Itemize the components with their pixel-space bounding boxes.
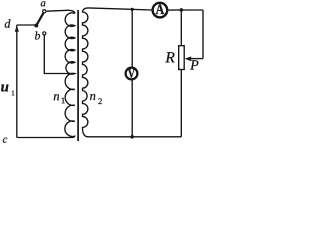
label n2	[90, 94, 95, 100]
wire d top horizontal	[17, 24, 37, 26]
label u1 subscript	[12, 91, 14, 96]
wire resistor top	[180, 10, 182, 46]
transformer core	[77, 10, 79, 141]
contact b circle	[43, 32, 46, 35]
wire secondary top to ammeter	[88, 8, 152, 10]
wiper arrow shaft P	[190, 58, 203, 60]
wiper arrowhead	[185, 56, 192, 61]
wire voltmeter branch lower	[131, 80, 133, 137]
label b	[35, 31, 40, 39]
label d	[5, 19, 11, 27]
wire bottom primary	[17, 137, 70, 139]
junction dot voltmeter top	[131, 8, 134, 11]
label n2 subscript	[98, 98, 101, 104]
voltmeter V circle	[126, 68, 138, 80]
junction dot voltmeter bottom	[130, 135, 134, 139]
meter letter V	[128, 69, 135, 77]
wire bottom secondary	[87, 136, 181, 138]
label n1	[54, 94, 59, 100]
ammeter A circle	[153, 3, 168, 18]
switch arm	[36, 12, 44, 25]
wire right vertical down to wiper	[202, 10, 204, 59]
contact a circle	[43, 10, 46, 13]
transformer primary winding n1	[65, 13, 75, 138]
label R	[165, 52, 174, 62]
label c	[3, 138, 7, 143]
label a	[41, 1, 46, 6]
switch pivot dot	[34, 24, 38, 28]
transformer secondary winding n2	[83, 8, 89, 137]
junction dot resistor branch	[180, 8, 184, 12]
wire b tap	[44, 35, 72, 74]
wire voltmeter branch upper	[131, 9, 133, 67]
label P	[190, 60, 198, 69]
meter letter A	[156, 4, 164, 14]
voltage arrow u1 (left wire from c up to d)	[16, 25, 18, 138]
label u1	[1, 85, 8, 92]
wire ammeter to right corner	[168, 9, 203, 11]
resistor R body	[179, 46, 185, 70]
wire a to primary top	[47, 10, 75, 13]
wire resistor bottom	[180, 70, 182, 137]
label n1 subscript	[62, 98, 65, 104]
